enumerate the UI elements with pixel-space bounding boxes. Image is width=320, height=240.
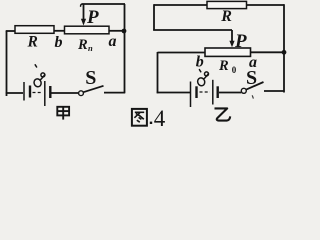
wire switch to right corner (乙) (264, 90, 284, 92)
svg-text:0: 0 (232, 65, 237, 75)
svg-text:4: 4 (154, 106, 166, 128)
svg-text:S: S (246, 67, 257, 89)
wire node b segment (54, 30, 65, 32)
junction dot a (甲) (122, 29, 127, 34)
svg-text:R: R (218, 58, 229, 74)
wire rheostat to junction a (乙) (251, 51, 285, 53)
wire right vertical (甲) (124, 4, 126, 93)
switch S pivot circle (乙) (241, 88, 246, 93)
wire middle (to wiper) (乙) (153, 29, 232, 31)
slider arrow P (甲) (81, 4, 86, 26)
svg-text:b: b (196, 54, 204, 71)
wire top (乙) (154, 4, 284, 6)
resistor R (甲) (15, 26, 54, 34)
wire b corner to rheostat (乙) (158, 52, 206, 54)
switch S lever (乙) (246, 82, 263, 90)
switch S lever (甲) (83, 86, 103, 92)
wire bottom-left (乙) (157, 92, 190, 94)
wire left vertical (甲) (6, 31, 8, 96)
svg-text:b: b (55, 34, 63, 51)
node a label (甲) (109, 33, 117, 50)
wire left vertical lower (乙) (157, 52, 159, 93)
wire battery to switch (乙) (219, 92, 241, 94)
wire bottom-left (甲) (6, 92, 23, 94)
rheostat Rn (甲) (65, 26, 110, 34)
wire battery to switch (甲) (52, 92, 79, 94)
svg-text:S: S (85, 67, 96, 89)
label P (乙) (234, 31, 247, 52)
node a label (乙) (249, 54, 257, 71)
label R (甲) (27, 34, 38, 51)
svg-text:n: n (88, 43, 93, 53)
node b label (乙) (196, 54, 204, 71)
junction dot a (乙) (282, 50, 287, 55)
label Rn (甲) (77, 37, 93, 53)
svg-text:R: R (77, 37, 88, 53)
resistor R (乙) (207, 1, 247, 8)
label R (乙) (220, 8, 232, 25)
battery cell plates (乙) (191, 80, 218, 107)
label EMF script-E (乙) (197, 70, 209, 87)
label 甲 (57, 107, 69, 120)
label 乙 (215, 108, 231, 120)
svg-text:a: a (109, 33, 117, 50)
label S (甲) (85, 67, 96, 89)
svg-text:R: R (27, 34, 38, 51)
svg-text:P: P (86, 7, 99, 28)
wire switch to right vertical (甲) (104, 92, 125, 94)
caption digit 4 (154, 106, 166, 131)
switch S pivot circle (甲) (79, 91, 84, 96)
caption glyph 图 (132, 109, 147, 126)
node b label (甲) (55, 34, 63, 51)
battery cell plates (甲) (24, 81, 50, 106)
rheostat R0 (乙) (205, 48, 251, 56)
label P (甲) (86, 7, 99, 28)
label R0 (乙) (218, 58, 237, 75)
slider arrow P (乙) (229, 30, 234, 47)
label EMF script-E (甲) (33, 65, 45, 88)
scan speck below switch (乙) (252, 95, 253, 98)
svg-text:R: R (220, 8, 232, 25)
wire top (wiper to a) (甲) (81, 4, 125, 7)
wire top-left to resistor R (6, 30, 15, 32)
wire right vertical (乙) (283, 4, 285, 92)
wire left vertical upper (乙) (153, 4, 155, 30)
wire a to junction (109, 30, 125, 32)
label S (乙) (246, 67, 257, 89)
caption dot (150, 122, 152, 124)
